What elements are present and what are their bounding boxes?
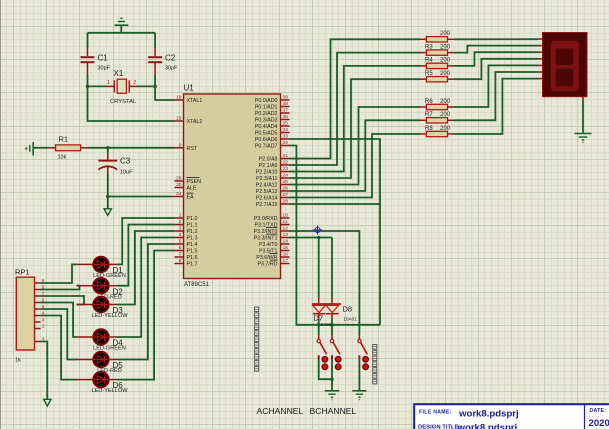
wire [87,33,89,87]
svg-text:16: 16 [283,252,289,258]
svg-text:D8: D8 [343,305,353,314]
svg-text:P0.4/AD4: P0.4/AD4 [255,124,278,130]
svg-text:10A01: 10A01 [318,322,332,327]
switch A1 [317,325,328,370]
resistor-pack RP1 [15,268,45,364]
wire [155,86,174,100]
svg-text:P2.6/A14: P2.6/A14 [256,196,278,202]
svg-text:DESIGN TITLE:: DESIGN TITLE: [418,424,461,429]
svg-text:ALE: ALE [187,186,197,192]
wire [118,251,175,380]
svg-text:work8.pdsprj: work8.pdsprj [458,408,519,419]
svg-text:C1: C1 [98,54,109,63]
svg-text:P1.4: P1.4 [187,242,198,248]
wire [154,33,156,87]
svg-text:21: 21 [283,153,289,159]
U1 pin names [187,98,278,268]
switch A2 [330,325,341,370]
svg-text:18: 18 [176,116,182,122]
svg-text:34: 34 [283,127,289,133]
wire [290,120,421,191]
svg-text:23: 23 [283,166,289,172]
crystal X1 [106,69,138,105]
wire [118,225,175,286]
resistor R6 [420,99,454,110]
svg-text:2: 2 [42,323,45,329]
note BCHANNEL [310,406,357,416]
wire [290,66,421,172]
U1 pin numbers [176,95,288,265]
LED D3 [77,297,129,319]
svg-text:LED-GREEN: LED-GREEN [93,346,126,352]
svg-text:R3: R3 [425,44,433,50]
wire [290,203,381,205]
svg-text:8: 8 [179,258,182,264]
note ACHANNEL [257,406,304,416]
wire [290,146,381,327]
LED D4 [77,329,126,351]
ground [115,18,129,33]
wire [290,39,421,158]
svg-text:P0.6/AD6: P0.6/AD6 [255,137,278,143]
svg-text:work8.pdsprj: work8.pdsprj [457,423,518,429]
wire [454,65,538,107]
svg-text:200: 200 [440,71,451,77]
svg-text:10A01: 10A01 [344,317,358,322]
svg-text:3: 3 [42,317,45,323]
svg-text:P2.7/A15: P2.7/A15 [256,202,278,208]
svg-text:30pF: 30pF [165,66,178,72]
svg-text:200: 200 [440,126,451,132]
svg-text:XTAL2: XTAL2 [187,119,203,125]
wire [582,101,584,133]
wire [290,79,421,178]
IC U1 AT89C51 [175,84,290,289]
wire [41,316,77,380]
svg-text:R4: R4 [425,58,433,64]
svg-text:P2.3/A11: P2.3/A11 [256,176,277,182]
svg-text:200: 200 [440,99,451,105]
svg-text:P1.0: P1.0 [187,216,198,222]
resistor R2 [420,31,454,42]
ground [352,391,366,400]
LED D6 [77,372,129,394]
svg-text:2: 2 [134,80,137,86]
svg-text:200: 200 [440,58,451,64]
svg-text:31: 31 [176,191,182,197]
svg-text:13: 13 [283,232,289,238]
wire [318,314,320,325]
wire [107,148,109,160]
svg-text:X1: X1 [114,69,124,78]
capacitor C1 [81,54,111,72]
title block [414,404,609,429]
svg-text:FILE NAME:: FILE NAME: [419,410,452,416]
svg-text:17: 17 [283,258,289,264]
svg-text:1: 1 [179,213,182,219]
svg-text:CRYSTAL: CRYSTAL [110,99,137,105]
svg-text:AT89C51: AT89C51 [184,282,210,288]
diode D8 [326,305,357,322]
svg-text:33: 33 [283,134,289,140]
svg-text:24: 24 [283,173,289,179]
switch B [358,339,369,369]
svg-text:14: 14 [283,239,289,245]
svg-text:12: 12 [283,226,289,232]
svg-text:XTAL1: XTAL1 [187,98,203,104]
wire [106,195,175,199]
wire [118,238,175,338]
ground [44,399,51,406]
svg-text:P0.2/AD2: P0.2/AD2 [255,111,278,117]
svg-text:6: 6 [179,245,182,251]
wire [358,359,360,391]
svg-text:P3.7/RD: P3.7/RD [257,262,277,268]
svg-text:ACHANNEL: ACHANNEL [257,406,304,416]
svg-text:25: 25 [283,179,289,185]
svg-text:30pF: 30pF [98,66,111,72]
svg-text:R7: R7 [425,112,433,118]
wire [86,85,106,89]
svg-text:P1.6: P1.6 [187,255,198,261]
wire [331,314,333,325]
svg-text:U1: U1 [184,84,195,93]
svg-text:10: 10 [283,213,289,219]
LED D2 [77,278,124,300]
wire [88,32,156,34]
svg-text:35: 35 [283,121,289,127]
wire [290,134,421,198]
svg-text:P1.3: P1.3 [187,236,198,242]
resistor R5 [420,71,454,82]
wire [290,231,360,339]
svg-text:P1.1: P1.1 [187,223,198,229]
svg-text:3: 3 [179,226,182,232]
svg-text:27: 27 [283,192,289,198]
svg-text:38: 38 [283,101,289,107]
wire [107,167,109,197]
svg-text:BCHANNEL: BCHANNEL [310,406,357,416]
svg-text:29: 29 [176,176,182,182]
svg-text:P3.0/RXD: P3.0/RXD [254,216,278,222]
svg-text:32: 32 [283,140,289,146]
svg-text:RP1: RP1 [15,268,30,277]
wire [331,359,333,391]
wire [41,264,77,283]
node origin-marker [313,225,323,235]
diode D7 [312,304,341,327]
svg-text:19: 19 [176,95,182,101]
svg-text:P2.2/A10: P2.2/A10 [256,170,278,176]
wire [137,85,157,89]
ground [104,197,111,216]
svg-text:LED-YELLOW: LED-YELLOW [91,388,128,394]
resistor R8 [420,126,454,137]
svg-text:P2.0/A8: P2.0/A8 [259,157,278,163]
svg-text:37: 37 [283,108,289,114]
svg-text:4: 4 [179,232,182,238]
svg-text:10k: 10k [58,155,67,161]
power terminal [25,142,33,156]
svg-text:P0.3/AD3: P0.3/AD3 [255,118,278,124]
wire [454,72,538,120]
svg-text:EA: EA [187,195,195,201]
svg-text:10uF: 10uF [120,170,133,176]
svg-text:R8: R8 [425,126,433,132]
svg-text:P0.7/AD7: P0.7/AD7 [255,144,278,150]
svg-text:11: 11 [283,219,288,225]
resistor R4 [420,58,454,69]
svg-text:7: 7 [179,252,182,258]
svg-text:28: 28 [283,199,289,205]
svg-text:P0.0/AD0: P0.0/AD0 [255,98,278,104]
svg-text:15: 15 [283,245,289,251]
svg-text:30: 30 [176,182,182,188]
wire [88,86,175,121]
svg-text:36: 36 [283,114,289,120]
svg-text:P2.4/A12: P2.4/A12 [256,183,278,189]
svg-text:39: 39 [283,95,289,101]
wire [41,286,80,290]
svg-text:LED-YELLOW: LED-YELLOW [91,313,128,319]
svg-text:1k: 1k [15,358,21,364]
svg-text:26: 26 [283,186,289,192]
wire [319,359,334,381]
svg-text:P2.1/A9: P2.1/A9 [259,163,278,169]
svg-text:P2.5/A13: P2.5/A13 [256,189,278,195]
svg-text:PSEN: PSEN [187,179,202,185]
svg-text:R1: R1 [59,135,69,144]
ground [575,134,592,143]
svg-text:22: 22 [283,160,289,166]
svg-text:P1.7: P1.7 [187,262,198,268]
wire [118,218,175,264]
svg-text:C3: C3 [120,157,131,166]
wire [290,139,381,325]
capacitor C2 [148,54,178,72]
wire [41,309,77,360]
svg-text:R5: R5 [425,71,433,77]
svg-text:R6: R6 [425,99,433,105]
svg-text:C2: C2 [165,54,176,63]
wire [118,244,175,360]
svg-text:1: 1 [107,80,110,86]
LED D5 [77,352,124,374]
svg-text:P3.3/INT1: P3.3/INT1 [254,236,278,242]
svg-text:RST: RST [187,146,198,152]
wire [454,52,538,66]
svg-text:2: 2 [179,219,182,225]
svg-text:P1.2: P1.2 [187,229,198,235]
wire [41,342,48,400]
wire [454,79,538,134]
wire [454,59,538,79]
svg-text:200: 200 [440,44,451,50]
resistor R1 [48,135,88,161]
svg-text:9: 9 [179,143,182,149]
capacitor C3 [98,157,133,176]
svg-text:2020: 2020 [589,418,609,429]
resistor R3 [420,44,454,55]
note chinese-2 [373,345,377,384]
note chinese-1 [255,307,259,371]
resistor R7 [420,112,454,123]
wire [88,146,175,150]
svg-text:200: 200 [440,112,451,118]
7seg display [538,33,587,102]
svg-text:P0.5/AD5: P0.5/AD5 [255,131,278,137]
wire [290,107,421,185]
svg-text:P3.4/T0: P3.4/T0 [259,242,278,248]
LED D1 [77,257,126,279]
ground [325,391,339,400]
svg-text:P0.1/AD1: P0.1/AD1 [255,105,278,111]
wire [454,38,538,40]
wire [290,53,421,165]
svg-text:DATE:: DATE: [590,408,607,414]
wire [33,147,48,149]
wire [41,303,77,338]
wire [118,231,175,305]
wire [454,46,538,53]
wire [41,296,84,305]
svg-text:P1.5: P1.5 [187,249,198,255]
svg-text:200: 200 [440,31,451,37]
wire [290,236,333,304]
svg-text:5: 5 [179,239,182,245]
